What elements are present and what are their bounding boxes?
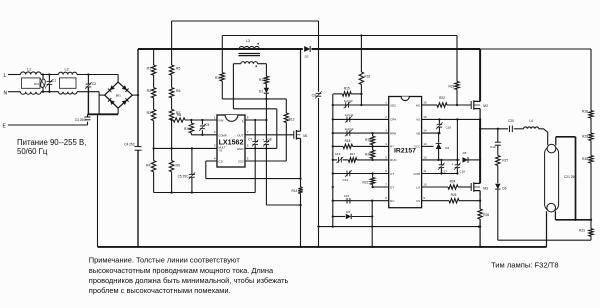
svg-text:R21: R21 xyxy=(362,180,368,184)
svg-text:R25: R25 xyxy=(451,193,457,197)
svg-text:1: 1 xyxy=(214,115,216,119)
svg-text:+: + xyxy=(451,162,453,166)
svg-text:высокочастотным проводникам мо: высокочастотным проводникам мощного тока… xyxy=(89,266,274,275)
svg-text:R17: R17 xyxy=(350,152,356,156)
svg-text:R28: R28 xyxy=(582,109,588,113)
svg-text:C9: C9 xyxy=(312,93,316,97)
svg-text:C20: C20 xyxy=(508,119,514,123)
svg-text:GND: GND xyxy=(237,147,245,151)
svg-text:5: 5 xyxy=(385,155,387,159)
svg-text:RPH: RPH xyxy=(390,131,396,135)
svg-text:7: 7 xyxy=(247,130,249,134)
svg-text:R4: R4 xyxy=(146,164,150,168)
svg-text:R23: R23 xyxy=(448,84,454,88)
svg-text:4: 4 xyxy=(214,156,216,160)
svg-text:L1: L1 xyxy=(27,68,31,72)
svg-text:C18: C18 xyxy=(460,170,466,174)
svg-text:10: 10 xyxy=(423,182,427,186)
svg-text:COMP: COMP xyxy=(218,133,227,137)
svg-text:R13: R13 xyxy=(289,118,295,122)
svg-text:D3: D3 xyxy=(346,210,350,214)
svg-text:D1: D1 xyxy=(259,90,263,94)
svg-text:R8: R8 xyxy=(177,113,181,117)
svg-text:C21 25C: C21 25C xyxy=(564,175,577,179)
svg-text:R31: R31 xyxy=(579,229,585,233)
svg-text:L3: L3 xyxy=(246,39,250,43)
svg-text:IN: IN xyxy=(220,149,223,153)
svg-text:VS: VS xyxy=(416,118,420,122)
svg-text:8: 8 xyxy=(247,115,249,119)
svg-text:14: 14 xyxy=(423,129,427,133)
svg-text:R18: R18 xyxy=(345,139,351,143)
svg-text:R27: R27 xyxy=(502,159,508,163)
svg-text:R9: R9 xyxy=(176,164,180,168)
svg-text:R1: R1 xyxy=(147,67,151,71)
svg-text:C7: C7 xyxy=(248,138,252,142)
svg-text:C16: C16 xyxy=(446,126,452,130)
svg-text:D6: D6 xyxy=(502,186,506,190)
svg-text:R6: R6 xyxy=(176,89,180,93)
svg-text:BR1: BR1 xyxy=(116,93,122,97)
svg-text:D2: D2 xyxy=(305,55,309,59)
svg-text:C2: C2 xyxy=(92,82,96,86)
svg-text:2: 2 xyxy=(214,130,216,134)
svg-text:IR2157: IR2157 xyxy=(394,148,416,155)
svg-text:C4 25C: C4 25C xyxy=(124,142,136,146)
svg-text:8: 8 xyxy=(385,196,387,200)
svg-text:VCC: VCC xyxy=(414,145,420,149)
svg-text:R22: R22 xyxy=(439,96,445,100)
svg-text:RC: RC xyxy=(390,199,394,203)
svg-text:C15: C15 xyxy=(344,194,350,198)
svg-text:7: 7 xyxy=(385,182,387,186)
svg-text:проблем с высокочастотными пом: проблем с высокочастотными помехами. xyxy=(89,286,231,295)
svg-text:C13: C13 xyxy=(335,152,341,156)
svg-text:CS: CS xyxy=(416,199,420,203)
svg-text:R16: R16 xyxy=(364,75,370,79)
svg-text:R3: R3 xyxy=(147,111,151,115)
svg-text:5: 5 xyxy=(247,156,249,160)
svg-text:DT: DT xyxy=(390,185,394,189)
svg-text:CPH: CPH xyxy=(390,118,396,122)
svg-text:R24: R24 xyxy=(450,179,456,183)
svg-text:VDC: VDC xyxy=(390,103,396,107)
svg-text:C4: C4 xyxy=(205,123,209,127)
svg-text:R26: R26 xyxy=(483,213,489,217)
svg-text:R29: R29 xyxy=(582,135,588,139)
svg-text:M2: M2 xyxy=(483,104,488,108)
svg-text:C1: C1 xyxy=(52,79,56,83)
svg-text:12: 12 xyxy=(423,155,427,159)
svg-text:R5: R5 xyxy=(176,67,180,71)
svg-text:N: N xyxy=(4,91,8,97)
svg-text:C14: C14 xyxy=(343,178,349,182)
svg-text:+: + xyxy=(262,138,264,142)
svg-text:R14: R14 xyxy=(291,189,297,193)
svg-text:1uC11: 1uC11 xyxy=(345,113,354,117)
svg-text:COM: COM xyxy=(413,172,420,176)
svg-text:OUT: OUT xyxy=(237,133,244,137)
svg-text:D5: D5 xyxy=(463,151,467,155)
svg-text:3: 3 xyxy=(214,144,216,148)
svg-text:M1: M1 xyxy=(303,134,308,138)
svg-text:4: 4 xyxy=(385,142,387,146)
svg-text:6: 6 xyxy=(247,144,249,148)
svg-text:LX1562: LX1562 xyxy=(219,139,244,147)
svg-text:CS: CS xyxy=(219,160,223,164)
svg-text:Тим лампы: F32/T8: Тим лампы: F32/T8 xyxy=(491,260,559,269)
svg-text:R12: R12 xyxy=(259,78,265,82)
svg-text:VB: VB xyxy=(416,131,420,135)
svg-text:C19: C19 xyxy=(490,145,496,149)
svg-text:L2: L2 xyxy=(65,68,69,72)
svg-text:9: 9 xyxy=(423,196,425,200)
svg-text:C3 25C: C3 25C xyxy=(75,118,87,122)
svg-text:6: 6 xyxy=(385,169,387,173)
svg-text:1uC12: 1uC12 xyxy=(345,127,354,131)
svg-text:R10: R10 xyxy=(184,127,190,131)
svg-text:C8: C8 xyxy=(267,138,271,142)
svg-text:11: 11 xyxy=(423,169,426,173)
svg-text:R15: R15 xyxy=(344,87,350,91)
svg-text:50/60 Гц: 50/60 Гц xyxy=(17,147,48,156)
svg-text:RV1: RV1 xyxy=(34,82,40,86)
svg-text:R20: R20 xyxy=(365,153,371,157)
svg-text:2: 2 xyxy=(385,115,387,119)
svg-text:15: 15 xyxy=(423,115,427,119)
svg-text:ZCD: ZCD xyxy=(238,160,243,164)
svg-text:E: E xyxy=(3,124,7,130)
svg-text:Примечание. Толстые линии соот: Примечание. Толстые линии соответствуют xyxy=(89,256,241,265)
svg-text:L: L xyxy=(4,73,7,79)
svg-text:3: 3 xyxy=(385,129,387,133)
svg-text:16: 16 xyxy=(423,100,427,104)
svg-text:RUN: RUN xyxy=(390,158,396,162)
svg-text:INV: INV xyxy=(219,119,224,123)
svg-text:1: 1 xyxy=(385,100,387,104)
svg-text:13: 13 xyxy=(423,142,427,146)
svg-text:L4: L4 xyxy=(529,119,533,123)
svg-text:1uC10: 1uC10 xyxy=(344,99,353,103)
svg-text:R2: R2 xyxy=(147,89,151,93)
svg-text:D4: D4 xyxy=(445,146,449,150)
svg-text:RT: RT xyxy=(390,145,394,149)
svg-text:R11: R11 xyxy=(215,76,221,80)
svg-text:CT: CT xyxy=(390,172,394,176)
svg-text:M3: M3 xyxy=(483,187,488,191)
svg-text:R19: R19 xyxy=(365,138,371,142)
svg-text:C5 25C: C5 25C xyxy=(178,175,190,179)
svg-text:R30: R30 xyxy=(582,157,588,161)
svg-text:проводников должна быть минима: проводников должна быть минимальной, что… xyxy=(89,276,289,285)
